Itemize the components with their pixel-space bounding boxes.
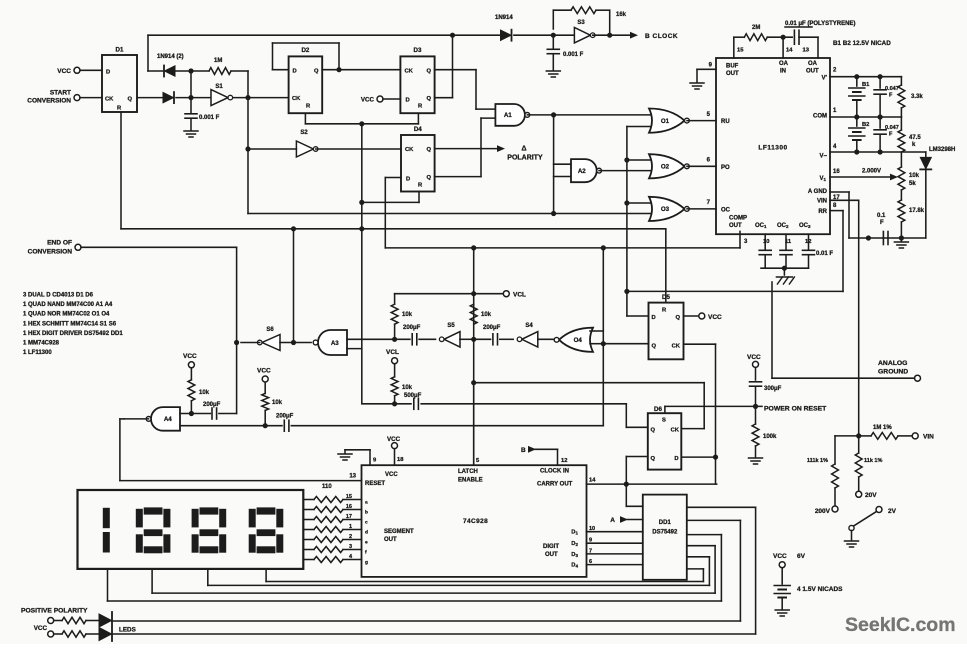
svg-text:111k 1%: 111k 1%: [807, 458, 828, 464]
svg-text:CARRY OUT: CARRY OUT: [537, 482, 573, 488]
svg-text:A GND: A GND: [808, 189, 828, 195]
svg-text:OC3: OC3: [799, 223, 811, 229]
svg-text:7: 7: [589, 548, 592, 554]
svg-text:LATCH: LATCH: [458, 469, 478, 475]
svg-text:VCC: VCC: [257, 368, 271, 375]
svg-text:1M: 1M: [214, 58, 222, 64]
svg-text:17.8k: 17.8k: [909, 208, 925, 214]
svg-text:110: 110: [322, 484, 332, 490]
svg-text:DD1: DD1: [659, 520, 672, 526]
svg-text:1 LF11300: 1 LF11300: [23, 350, 52, 356]
svg-text:A1: A1: [504, 112, 512, 119]
svg-text:ENABLE: ENABLE: [458, 478, 483, 484]
svg-text:6V: 6V: [797, 553, 806, 560]
svg-text:O3: O3: [661, 206, 670, 213]
svg-text:300μF: 300μF: [764, 386, 782, 392]
svg-text:IN: IN: [780, 69, 786, 75]
svg-text:10k: 10k: [402, 385, 413, 391]
svg-text:200μF: 200μF: [403, 325, 421, 331]
svg-text:VCC: VCC: [385, 472, 398, 478]
svg-text:4 1.5V NICADS: 4 1.5V NICADS: [797, 586, 843, 593]
svg-text:200μF: 200μF: [483, 325, 501, 331]
svg-text:0.01 μF (POLYSTYRENE): 0.01 μF (POLYSTYRENE): [785, 21, 855, 27]
svg-text:A4: A4: [164, 416, 172, 423]
svg-text:e: e: [365, 541, 368, 546]
svg-text:OA: OA: [808, 61, 818, 67]
svg-text:S1: S1: [215, 84, 223, 90]
svg-text:VIN: VIN: [817, 198, 827, 204]
svg-text:OC1: OC1: [755, 223, 767, 229]
svg-text:Q: Q: [426, 175, 431, 181]
svg-text:LM3298H: LM3298H: [929, 147, 955, 153]
svg-text:END OF: END OF: [47, 240, 72, 247]
svg-text:18: 18: [397, 457, 404, 463]
svg-text:9: 9: [589, 538, 592, 544]
svg-text:1 QUAD NOR MM74C02 O1 O4: 1 QUAD NOR MM74C02 O1 O4: [23, 312, 110, 318]
svg-text:Q: Q: [426, 96, 431, 102]
svg-text:0.1: 0.1: [877, 213, 886, 219]
svg-text:1: 1: [349, 524, 352, 530]
svg-text:D: D: [674, 456, 678, 462]
svg-text:2.000V: 2.000V: [862, 169, 881, 175]
svg-text:b: b: [365, 510, 368, 516]
svg-text:OC: OC: [721, 208, 731, 214]
svg-text:1 QUAD NAND MM74C00 A1 A4: 1 QUAD NAND MM74C00 A1 A4: [23, 302, 113, 308]
svg-text:D2: D2: [301, 47, 309, 54]
svg-text:CK: CK: [671, 428, 680, 434]
svg-text:10k: 10k: [272, 400, 283, 406]
svg-text:OUT: OUT: [384, 537, 397, 543]
svg-text:3.3k: 3.3k: [911, 94, 923, 100]
svg-text:S: S: [662, 418, 666, 424]
svg-text:16: 16: [833, 169, 840, 175]
svg-text:D: D: [106, 70, 110, 76]
svg-text:F: F: [880, 220, 884, 226]
svg-text:Q: Q: [652, 344, 657, 350]
svg-text:14: 14: [786, 48, 793, 54]
svg-text:D: D: [293, 69, 297, 75]
svg-text:A3: A3: [331, 340, 339, 347]
svg-text:13: 13: [349, 474, 356, 480]
svg-text:17: 17: [346, 514, 352, 520]
svg-text:A: A: [610, 517, 615, 524]
svg-text:10: 10: [763, 239, 769, 245]
svg-text:S4: S4: [525, 323, 533, 329]
svg-text:RESET: RESET: [365, 481, 385, 487]
svg-text:CK: CK: [105, 97, 114, 103]
svg-text:OUT: OUT: [726, 71, 739, 77]
svg-text:D: D: [406, 177, 410, 183]
svg-text:POSITIVE POLARITY: POSITIVE POLARITY: [21, 608, 88, 615]
svg-text:VCC: VCC: [387, 436, 401, 443]
svg-text:VCC: VCC: [708, 314, 722, 321]
svg-text:1 HEX DIGIT DRIVER DS75492 DD1: 1 HEX DIGIT DRIVER DS75492 DD1: [23, 331, 123, 337]
svg-text:15: 15: [346, 494, 352, 500]
svg-text:VCC: VCC: [183, 353, 197, 360]
svg-text:12: 12: [561, 458, 567, 464]
svg-text:D: D: [652, 315, 656, 321]
svg-text:2M: 2M: [752, 25, 760, 31]
svg-text:100k: 100k: [763, 434, 777, 440]
svg-text:D2: D2: [571, 541, 578, 547]
svg-text:D4: D4: [414, 126, 422, 133]
svg-text:GROUND: GROUND: [878, 369, 908, 376]
svg-text:POLARITY: POLARITY: [507, 155, 543, 162]
svg-text:D4: D4: [571, 563, 578, 569]
svg-text:OUT: OUT: [729, 223, 742, 229]
svg-text:S3: S3: [577, 20, 585, 26]
svg-text:16: 16: [346, 504, 352, 510]
svg-text:B1 B2 12.5V NICAD: B1 B2 12.5V NICAD: [833, 40, 891, 47]
svg-text:D6: D6: [654, 406, 662, 413]
svg-text:COMP: COMP: [729, 216, 747, 222]
svg-text:10: 10: [589, 526, 595, 532]
svg-text:1 HEX SCHMITT MM74C14 S1 S6: 1 HEX SCHMITT MM74C14 S1 S6: [23, 321, 117, 327]
svg-text:RR: RR: [818, 209, 827, 215]
svg-text:a: a: [365, 501, 368, 506]
svg-text:Q: Q: [314, 69, 319, 75]
svg-text:D3: D3: [571, 552, 578, 558]
svg-text:BUF: BUF: [726, 64, 739, 70]
svg-text:10k: 10k: [199, 390, 210, 396]
svg-text:14: 14: [589, 478, 596, 484]
svg-text:Q: Q: [651, 456, 656, 462]
svg-text:11k 1%: 11k 1%: [864, 458, 882, 464]
svg-text:Q: Q: [675, 315, 680, 321]
svg-text:Q: Q: [426, 69, 431, 75]
svg-text:10k: 10k: [481, 312, 492, 318]
svg-text:O2: O2: [661, 164, 670, 171]
svg-text:1M 1%: 1M 1%: [873, 425, 892, 431]
svg-text:O4: O4: [574, 337, 583, 344]
svg-text:A2: A2: [578, 168, 586, 175]
svg-text:CONVERSION: CONVERSION: [28, 249, 73, 256]
svg-text:1N914: 1N914: [495, 15, 513, 21]
svg-text:200μF: 200μF: [203, 402, 221, 408]
svg-text:3: 3: [349, 544, 352, 550]
svg-text:V−: V−: [819, 154, 827, 160]
svg-text:200V: 200V: [815, 508, 831, 515]
svg-text:LEDS: LEDS: [119, 627, 136, 634]
svg-text:0.01 F: 0.01 F: [816, 251, 833, 257]
svg-text:START: START: [50, 90, 71, 97]
svg-text:2: 2: [349, 534, 352, 540]
svg-text:D: D: [406, 98, 410, 104]
svg-text:S2: S2: [300, 130, 308, 136]
svg-text:OA: OA: [779, 61, 789, 67]
svg-text:Q: Q: [127, 97, 132, 103]
svg-text:0.047: 0.047: [885, 125, 899, 131]
svg-text:d: d: [365, 530, 368, 536]
svg-text:VIN: VIN: [923, 434, 934, 441]
svg-text:10k: 10k: [402, 312, 413, 318]
svg-text:B: B: [521, 447, 526, 454]
svg-text:VCL: VCL: [513, 292, 526, 299]
svg-text:6: 6: [589, 559, 592, 565]
svg-text:CLOCK IN: CLOCK IN: [540, 469, 569, 475]
svg-text:VCC: VCC: [361, 97, 375, 104]
svg-text:B CLOCK: B CLOCK: [645, 33, 678, 40]
svg-text:0.001 F: 0.001 F: [563, 52, 584, 58]
svg-text:500μF: 500μF: [404, 393, 422, 399]
svg-text:D1: D1: [116, 47, 124, 54]
svg-text:V′: V′: [822, 76, 828, 82]
svg-text:1N914 (2): 1N914 (2): [157, 54, 184, 60]
svg-text:CK: CK: [405, 147, 414, 153]
svg-text:g: g: [365, 561, 368, 566]
svg-text:CK: CK: [672, 344, 681, 350]
svg-text:VCC: VCC: [34, 625, 48, 632]
svg-text:47.5: 47.5: [909, 135, 921, 141]
svg-text:S5: S5: [447, 323, 455, 329]
svg-text:16k: 16k: [616, 12, 627, 18]
svg-text:Q: Q: [651, 428, 656, 434]
svg-text:3 DUAL D CD4013 D1 D6: 3 DUAL D CD4013 D1 D6: [23, 293, 94, 299]
svg-text:c: c: [365, 521, 368, 526]
svg-text:COM: COM: [813, 114, 827, 120]
svg-text:VCL: VCL: [386, 349, 399, 356]
svg-text:O1: O1: [661, 118, 670, 125]
svg-text:200μF: 200μF: [276, 414, 294, 420]
svg-text:13: 13: [803, 48, 810, 54]
svg-text:CK: CK: [292, 96, 301, 102]
svg-text:V1: V1: [819, 176, 826, 182]
svg-text:D1: D1: [571, 530, 578, 536]
svg-text:1 MM74C928: 1 MM74C928: [23, 341, 60, 347]
svg-text:Q: Q: [426, 147, 431, 153]
svg-text:D3: D3: [414, 47, 422, 54]
svg-text:LF11300: LF11300: [758, 145, 787, 152]
svg-text:PO: PO: [721, 165, 730, 171]
svg-text:VCC: VCC: [773, 553, 787, 560]
svg-text:74C928: 74C928: [463, 518, 488, 525]
svg-text:10k: 10k: [909, 173, 920, 179]
svg-text:CONVERSION: CONVERSION: [27, 98, 71, 105]
svg-text:OC2: OC2: [777, 223, 789, 229]
svg-text:CK: CK: [405, 69, 414, 75]
svg-text:15: 15: [737, 48, 744, 54]
svg-text:B2: B2: [862, 122, 869, 128]
svg-text:SEGMENT: SEGMENT: [384, 529, 414, 535]
svg-text:D5: D5: [662, 294, 670, 301]
svg-text:OUT: OUT: [806, 69, 819, 75]
svg-text:RU: RU: [721, 119, 730, 125]
svg-text:DIGIT: DIGIT: [543, 544, 559, 550]
svg-text:0.001 F: 0.001 F: [199, 115, 220, 121]
svg-text:20V: 20V: [865, 492, 877, 499]
svg-text:B1: B1: [862, 82, 870, 88]
svg-text:SeekIC.com: SeekIC.com: [845, 614, 956, 636]
svg-text:DS75492: DS75492: [652, 530, 678, 536]
svg-text:ANALOG: ANALOG: [878, 360, 907, 367]
svg-text:2V: 2V: [888, 508, 897, 515]
svg-text:S6: S6: [266, 327, 274, 333]
svg-text:5k: 5k: [909, 181, 916, 187]
svg-text:Δ: Δ: [521, 146, 526, 153]
svg-text:POWER ON RESET: POWER ON RESET: [764, 406, 827, 413]
svg-text:VCC: VCC: [57, 68, 71, 75]
svg-text:VCC: VCC: [747, 354, 761, 361]
svg-text:OUT: OUT: [545, 552, 558, 558]
